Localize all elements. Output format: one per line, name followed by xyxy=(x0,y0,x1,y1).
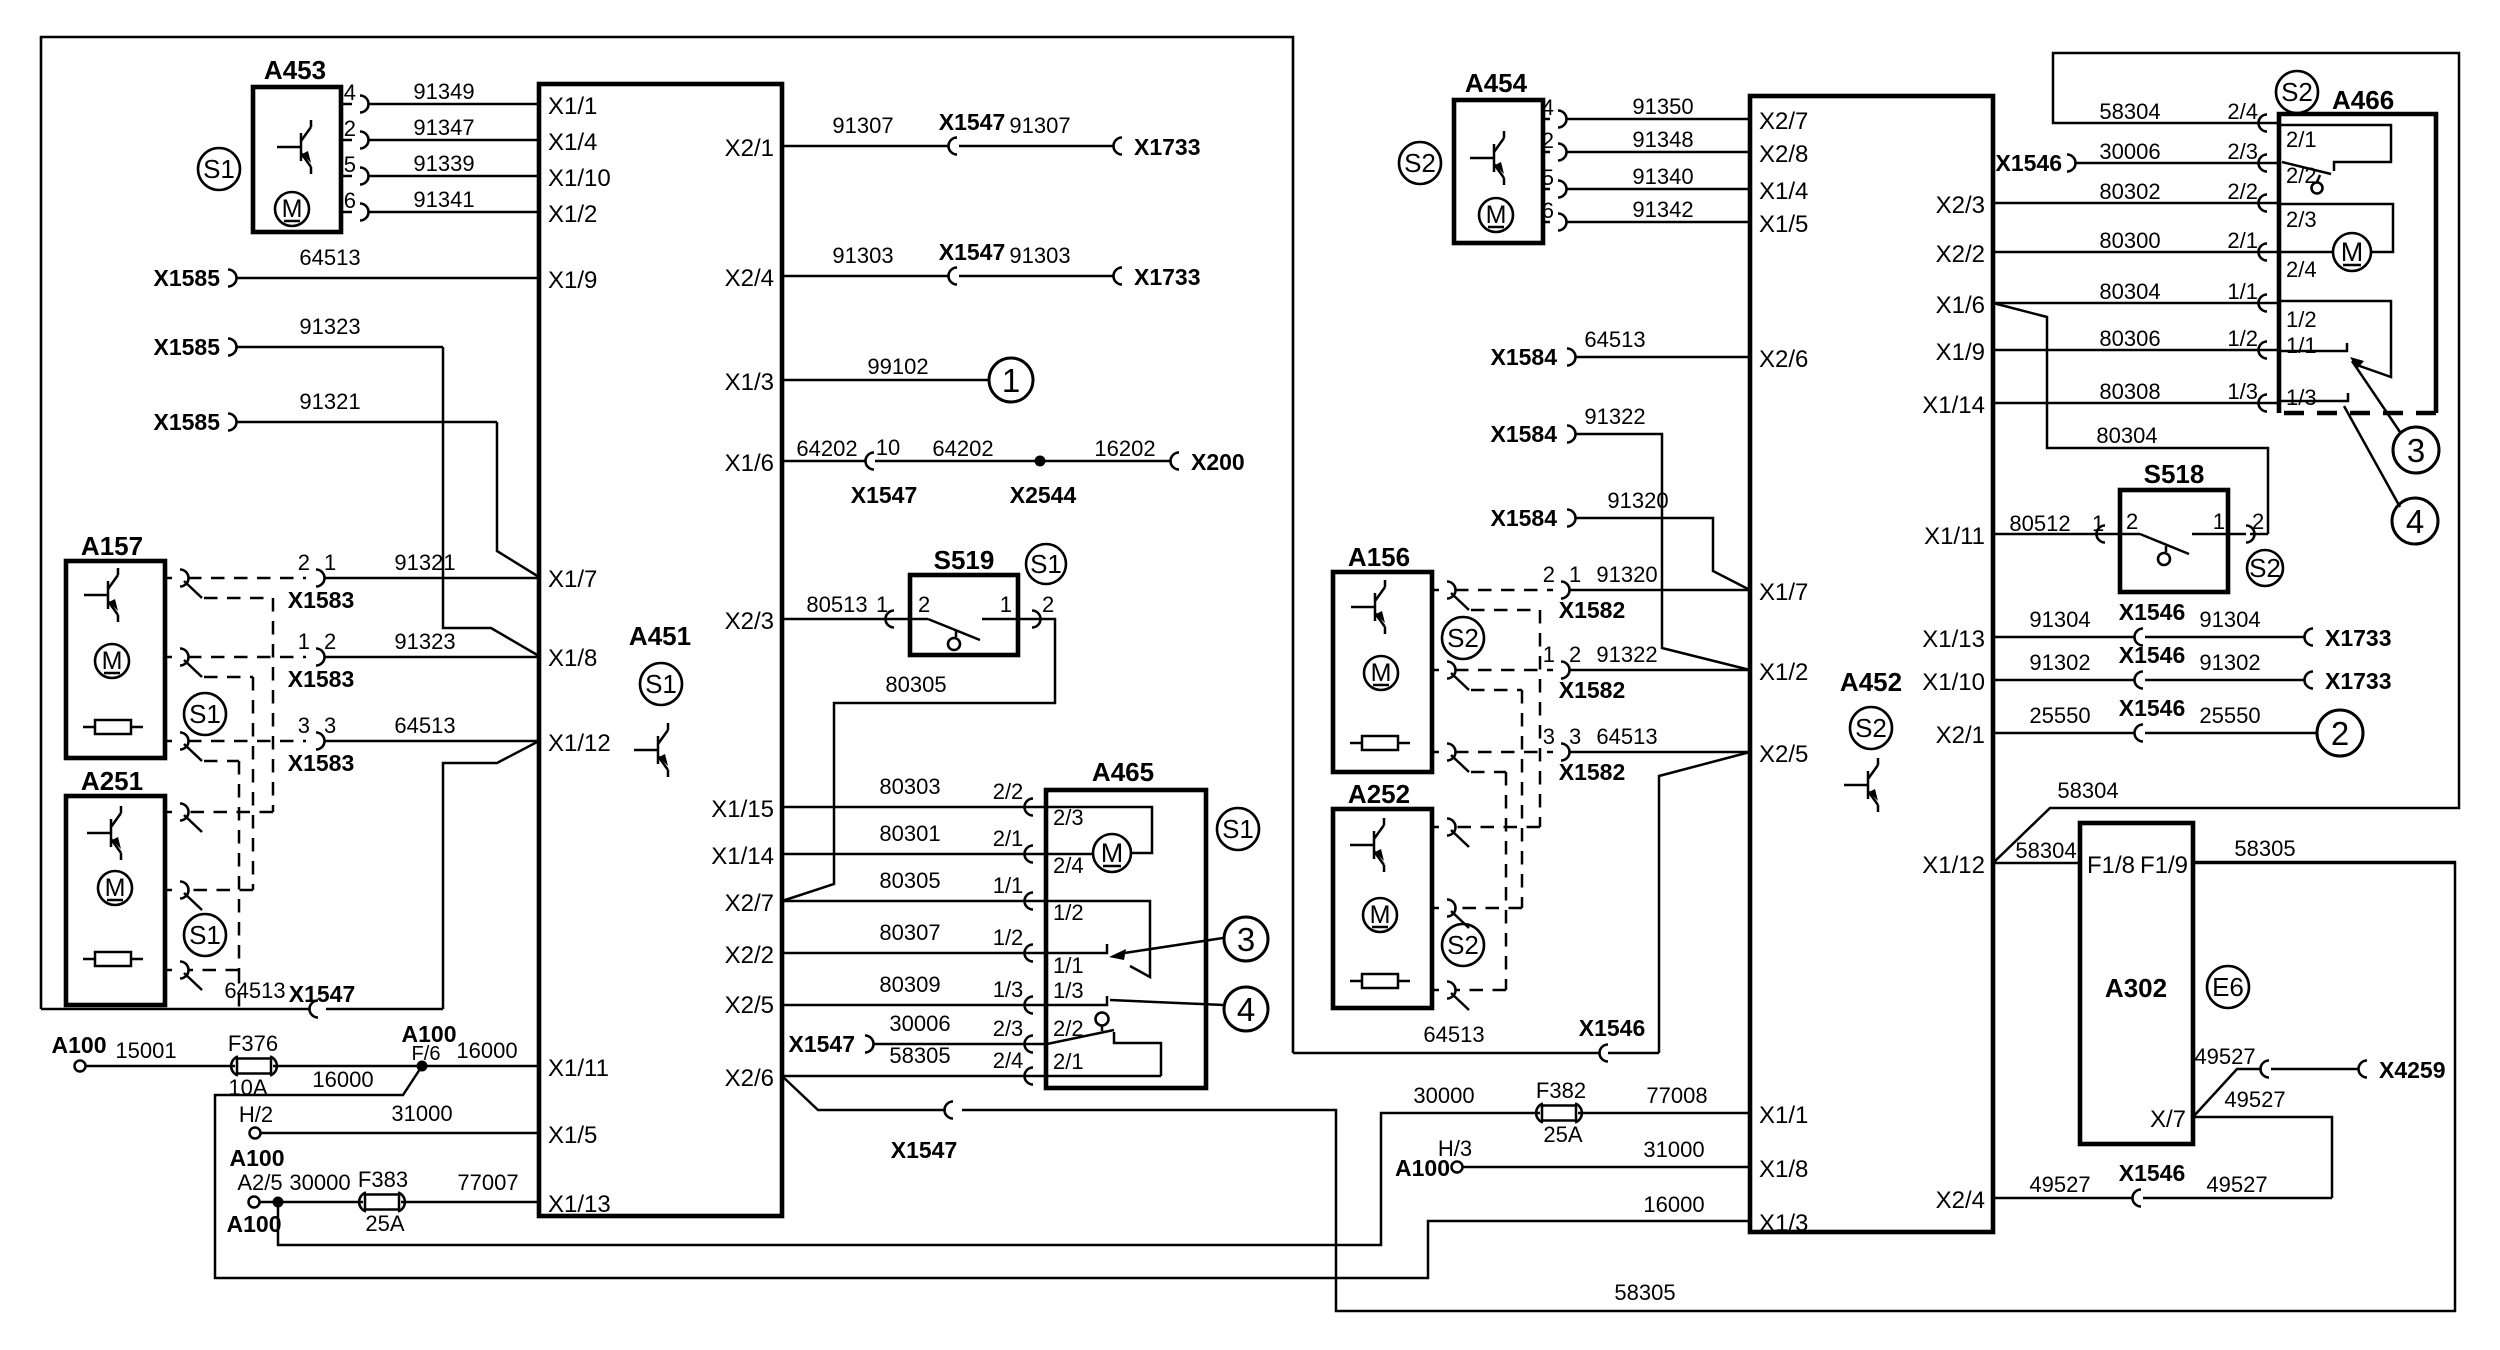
svg-text:X1/13: X1/13 xyxy=(1922,626,1985,653)
svg-text:3: 3 xyxy=(2407,432,2425,469)
svg-text:80309: 80309 xyxy=(879,972,940,997)
svg-text:80307: 80307 xyxy=(879,920,940,945)
svg-text:80304: 80304 xyxy=(2099,279,2160,304)
svg-text:X2/6: X2/6 xyxy=(1759,346,1808,373)
svg-text:X1/12: X1/12 xyxy=(548,730,611,757)
svg-text:91323: 91323 xyxy=(394,629,455,654)
svg-text:A452: A452 xyxy=(1840,667,1902,697)
svg-text:1/3: 1/3 xyxy=(1053,978,1084,1003)
svg-text:91320: 91320 xyxy=(1596,562,1657,587)
svg-text:X1546: X1546 xyxy=(1995,150,2062,176)
svg-text:X1/10: X1/10 xyxy=(548,165,611,192)
svg-text:2: 2 xyxy=(2126,509,2138,534)
svg-text:X1583: X1583 xyxy=(288,666,355,692)
svg-text:X1/13: X1/13 xyxy=(548,1191,611,1218)
svg-text:X2/8: X2/8 xyxy=(1759,141,1808,168)
svg-text:49527: 49527 xyxy=(2194,1044,2255,1069)
svg-text:80303: 80303 xyxy=(879,774,940,799)
svg-text:4: 4 xyxy=(344,80,356,105)
svg-text:2: 2 xyxy=(298,550,310,575)
svg-text:X1582: X1582 xyxy=(1559,597,1626,623)
svg-text:77008: 77008 xyxy=(1646,1083,1707,1108)
svg-text:X2/7: X2/7 xyxy=(1759,108,1808,135)
svg-text:3: 3 xyxy=(1543,724,1555,749)
svg-text:X1/9: X1/9 xyxy=(548,267,597,294)
svg-text:1: 1 xyxy=(298,629,310,654)
svg-text:1/3: 1/3 xyxy=(993,977,1024,1002)
svg-text:91342: 91342 xyxy=(1632,197,1693,222)
svg-text:X4259: X4259 xyxy=(2379,1057,2446,1083)
svg-text:2/3: 2/3 xyxy=(2286,207,2317,232)
svg-text:1/1: 1/1 xyxy=(2227,279,2258,304)
svg-text:X1/8: X1/8 xyxy=(1759,1156,1808,1183)
svg-text:49527: 49527 xyxy=(2029,1172,2090,1197)
svg-text:58304: 58304 xyxy=(2099,99,2160,124)
svg-text:A156: A156 xyxy=(1348,542,1410,572)
svg-text:X1/11: X1/11 xyxy=(1924,523,1985,550)
svg-text:91304: 91304 xyxy=(2029,607,2090,632)
svg-text:91302: 91302 xyxy=(2199,650,2260,675)
svg-text:80512: 80512 xyxy=(2009,511,2070,536)
svg-text:A100: A100 xyxy=(230,1145,285,1171)
svg-text:2/4: 2/4 xyxy=(2286,257,2317,282)
svg-text:X2/3: X2/3 xyxy=(1936,192,1985,219)
svg-text:S1: S1 xyxy=(189,699,221,729)
svg-text:X1/5: X1/5 xyxy=(548,1122,597,1149)
svg-text:80305: 80305 xyxy=(885,672,946,697)
svg-text:X1584: X1584 xyxy=(1490,505,1557,531)
svg-text:2: 2 xyxy=(1543,562,1555,587)
svg-text:1: 1 xyxy=(324,550,336,575)
svg-text:X1/8: X1/8 xyxy=(548,645,597,672)
svg-text:X1/15: X1/15 xyxy=(711,796,774,823)
svg-text:X1/14: X1/14 xyxy=(1922,392,1985,419)
svg-text:F383: F383 xyxy=(358,1167,408,1192)
svg-text:1/1: 1/1 xyxy=(2286,333,2317,358)
svg-text:3: 3 xyxy=(298,713,310,738)
svg-text:80301: 80301 xyxy=(879,821,940,846)
svg-text:1/2: 1/2 xyxy=(1053,900,1084,925)
svg-text:X1/3: X1/3 xyxy=(725,369,774,396)
svg-text:91307: 91307 xyxy=(1009,113,1070,138)
svg-text:X2/3: X2/3 xyxy=(725,608,774,635)
svg-text:25550: 25550 xyxy=(2199,703,2260,728)
svg-text:X1582: X1582 xyxy=(1559,759,1626,785)
svg-text:A100: A100 xyxy=(227,1211,282,1237)
svg-text:S1: S1 xyxy=(189,920,221,950)
svg-text:64513: 64513 xyxy=(1596,724,1657,749)
svg-text:X2/2: X2/2 xyxy=(1936,241,1985,268)
svg-text:91349: 91349 xyxy=(413,79,474,104)
svg-text:X1546: X1546 xyxy=(2119,695,2186,721)
svg-text:25A: 25A xyxy=(365,1211,404,1236)
svg-text:3: 3 xyxy=(324,713,336,738)
svg-text:S2: S2 xyxy=(1447,930,1479,960)
svg-text:49527: 49527 xyxy=(2206,1172,2267,1197)
svg-text:91303: 91303 xyxy=(832,243,893,268)
svg-text:80300: 80300 xyxy=(2099,228,2160,253)
svg-text:2/4: 2/4 xyxy=(1053,853,1084,878)
svg-text:2/2: 2/2 xyxy=(2227,179,2258,204)
svg-text:X1583: X1583 xyxy=(288,750,355,776)
svg-text:1: 1 xyxy=(1000,592,1012,617)
svg-text:91341: 91341 xyxy=(413,187,474,212)
svg-text:A302: A302 xyxy=(2105,973,2167,1003)
svg-text:64513: 64513 xyxy=(1423,1022,1484,1047)
svg-text:X1/1: X1/1 xyxy=(548,93,597,120)
svg-text:X2/5: X2/5 xyxy=(725,992,774,1019)
svg-text:X1584: X1584 xyxy=(1490,344,1557,370)
svg-text:X1582: X1582 xyxy=(1559,677,1626,703)
svg-text:X1/6: X1/6 xyxy=(1936,292,1985,319)
svg-text:58304: 58304 xyxy=(2057,778,2118,803)
svg-text:X1584: X1584 xyxy=(1490,421,1557,447)
svg-text:2/4: 2/4 xyxy=(2227,99,2258,124)
svg-text:A157: A157 xyxy=(81,531,143,561)
svg-text:A100: A100 xyxy=(1395,1155,1450,1181)
svg-text:5: 5 xyxy=(344,152,356,177)
svg-text:S2: S2 xyxy=(1447,623,1479,653)
svg-text:91347: 91347 xyxy=(413,115,474,140)
svg-text:80308: 80308 xyxy=(2099,379,2160,404)
svg-text:2: 2 xyxy=(1569,642,1581,667)
svg-text:X2/1: X2/1 xyxy=(725,135,774,162)
svg-text:X1/6: X1/6 xyxy=(725,450,774,477)
svg-text:X1585: X1585 xyxy=(153,409,220,435)
svg-text:1/3: 1/3 xyxy=(2286,385,2317,410)
svg-text:A454: A454 xyxy=(1465,68,1528,98)
svg-text:91348: 91348 xyxy=(1632,127,1693,152)
svg-text:25550: 25550 xyxy=(2029,703,2090,728)
svg-text:1/2: 1/2 xyxy=(2227,326,2258,351)
svg-text:X2/7: X2/7 xyxy=(725,890,774,917)
svg-text:X1547: X1547 xyxy=(788,1031,855,1057)
svg-text:64513: 64513 xyxy=(224,978,285,1003)
svg-text:6: 6 xyxy=(1542,198,1554,223)
svg-text:S518: S518 xyxy=(2144,459,2205,489)
svg-text:X1/14: X1/14 xyxy=(711,843,774,870)
svg-text:X1546: X1546 xyxy=(2119,642,2186,668)
svg-text:H/2: H/2 xyxy=(239,1102,273,1127)
svg-text:1/2: 1/2 xyxy=(993,925,1024,950)
svg-text:91321: 91321 xyxy=(299,389,360,414)
svg-text:A251: A251 xyxy=(81,766,143,796)
svg-text:80306: 80306 xyxy=(2099,326,2160,351)
svg-text:4: 4 xyxy=(1542,95,1554,120)
svg-text:X1585: X1585 xyxy=(153,334,220,360)
svg-text:99102: 99102 xyxy=(867,354,928,379)
svg-text:X1/11: X1/11 xyxy=(548,1055,609,1082)
svg-text:16000: 16000 xyxy=(456,1038,517,1063)
svg-text:X1546: X1546 xyxy=(2119,599,2186,625)
svg-text:X1/9: X1/9 xyxy=(1936,339,1985,366)
svg-text:1: 1 xyxy=(2213,509,2225,534)
svg-text:15001: 15001 xyxy=(115,1038,176,1063)
svg-text:4: 4 xyxy=(1237,991,1255,1028)
svg-text:X1/4: X1/4 xyxy=(1759,178,1808,205)
svg-text:1/1: 1/1 xyxy=(1053,953,1084,978)
svg-text:1: 1 xyxy=(876,592,888,617)
svg-text:58305: 58305 xyxy=(889,1043,950,1068)
svg-text:2/3: 2/3 xyxy=(2227,139,2258,164)
svg-text:16000: 16000 xyxy=(312,1067,373,1092)
svg-text:31000: 31000 xyxy=(1643,1137,1704,1162)
svg-text:S1: S1 xyxy=(645,669,677,699)
svg-text:X1547: X1547 xyxy=(939,109,1006,135)
svg-text:A2/5: A2/5 xyxy=(237,1170,282,1195)
svg-text:91322: 91322 xyxy=(1584,404,1645,429)
svg-text:1/2: 1/2 xyxy=(2286,307,2317,332)
svg-text:F/6: F/6 xyxy=(412,1043,441,1065)
svg-text:58305: 58305 xyxy=(2234,836,2295,861)
svg-text:80302: 80302 xyxy=(2099,179,2160,204)
svg-text:91321: 91321 xyxy=(394,550,455,575)
svg-text:80304: 80304 xyxy=(2096,423,2157,448)
svg-text:F1/8: F1/8 xyxy=(2087,852,2135,879)
svg-text:X2/1: X2/1 xyxy=(1936,722,1985,749)
svg-text:2/1: 2/1 xyxy=(993,826,1024,851)
svg-text:S1: S1 xyxy=(1030,549,1062,579)
svg-text:2: 2 xyxy=(2331,715,2349,752)
svg-text:X1583: X1583 xyxy=(288,587,355,613)
svg-text:2/2: 2/2 xyxy=(993,779,1024,804)
svg-text:30006: 30006 xyxy=(889,1011,950,1036)
svg-text:64202: 64202 xyxy=(932,436,993,461)
svg-text:5: 5 xyxy=(1542,165,1554,190)
svg-text:1: 1 xyxy=(1002,362,1020,399)
svg-text:X1547: X1547 xyxy=(851,482,918,508)
svg-text:4: 4 xyxy=(2406,503,2424,540)
svg-text:X2/4: X2/4 xyxy=(1936,1187,1985,1214)
svg-text:X1/12: X1/12 xyxy=(1922,852,1985,879)
svg-text:2: 2 xyxy=(918,592,930,617)
svg-text:3: 3 xyxy=(1569,724,1581,749)
svg-text:16202: 16202 xyxy=(1094,436,1155,461)
svg-text:91322: 91322 xyxy=(1596,642,1657,667)
svg-text:X200: X200 xyxy=(1191,449,1245,475)
svg-text:91307: 91307 xyxy=(832,113,893,138)
svg-text:58305: 58305 xyxy=(1614,1280,1675,1305)
svg-text:2/3: 2/3 xyxy=(993,1016,1024,1041)
svg-text:X1/2: X1/2 xyxy=(1759,659,1808,686)
svg-text:80513: 80513 xyxy=(806,592,867,617)
svg-text:2/3: 2/3 xyxy=(1053,805,1084,830)
svg-text:1: 1 xyxy=(1543,642,1555,667)
svg-text:10: 10 xyxy=(876,435,900,460)
svg-text:30000: 30000 xyxy=(289,1170,350,1195)
svg-text:X1547: X1547 xyxy=(891,1137,958,1163)
svg-text:X1733: X1733 xyxy=(2325,625,2392,651)
svg-text:91340: 91340 xyxy=(1632,164,1693,189)
svg-text:A451: A451 xyxy=(629,621,691,651)
svg-text:X2/5: X2/5 xyxy=(1759,741,1808,768)
svg-text:64513: 64513 xyxy=(394,713,455,738)
svg-text:X/7: X/7 xyxy=(2150,1106,2186,1133)
svg-text:64513: 64513 xyxy=(299,245,360,270)
svg-text:2/4: 2/4 xyxy=(993,1048,1024,1073)
svg-text:2: 2 xyxy=(1042,592,1054,617)
svg-text:X2/2: X2/2 xyxy=(725,942,774,969)
svg-text:X1733: X1733 xyxy=(1134,134,1201,160)
svg-text:1/3: 1/3 xyxy=(2227,379,2258,404)
svg-text:91304: 91304 xyxy=(2199,607,2260,632)
svg-text:X1546: X1546 xyxy=(2119,1160,2186,1186)
svg-text:3: 3 xyxy=(1237,921,1255,958)
svg-text:25A: 25A xyxy=(1543,1122,1582,1147)
svg-text:X2544: X2544 xyxy=(1010,482,1077,508)
svg-text:X1733: X1733 xyxy=(2325,668,2392,694)
svg-text:X1733: X1733 xyxy=(1134,264,1201,290)
svg-text:2/1: 2/1 xyxy=(2227,228,2258,253)
svg-text:X2/4: X2/4 xyxy=(725,265,774,292)
svg-text:2/1: 2/1 xyxy=(2286,127,2317,152)
svg-text:F382: F382 xyxy=(1536,1078,1586,1103)
svg-text:X1/7: X1/7 xyxy=(548,566,597,593)
svg-text:30000: 30000 xyxy=(1413,1083,1474,1108)
svg-text:X2/6: X2/6 xyxy=(725,1065,774,1092)
svg-text:58304: 58304 xyxy=(2015,838,2076,863)
svg-text:S2: S2 xyxy=(1404,148,1436,178)
svg-text:X1/3: X1/3 xyxy=(1759,1210,1808,1237)
svg-text:F1/9: F1/9 xyxy=(2140,852,2188,879)
svg-text:S1: S1 xyxy=(203,154,235,184)
svg-text:49527: 49527 xyxy=(2224,1087,2285,1112)
svg-text:2: 2 xyxy=(324,629,336,654)
svg-text:2/1: 2/1 xyxy=(1053,1049,1084,1074)
svg-text:S519: S519 xyxy=(934,545,995,575)
svg-text:A465: A465 xyxy=(1092,757,1154,787)
svg-text:2: 2 xyxy=(1542,128,1554,153)
svg-text:A252: A252 xyxy=(1348,779,1410,809)
svg-text:X1/5: X1/5 xyxy=(1759,211,1808,238)
svg-text:X1/7: X1/7 xyxy=(1759,579,1808,606)
svg-text:1: 1 xyxy=(2092,511,2104,536)
svg-text:1/1: 1/1 xyxy=(993,873,1024,898)
svg-text:X1/2: X1/2 xyxy=(548,201,597,228)
svg-text:2: 2 xyxy=(344,116,356,141)
svg-text:91339: 91339 xyxy=(413,151,474,176)
svg-text:X1/1: X1/1 xyxy=(1759,1102,1808,1129)
svg-text:16000: 16000 xyxy=(1643,1192,1704,1217)
svg-text:X1547: X1547 xyxy=(289,981,356,1007)
svg-text:X1585: X1585 xyxy=(153,265,220,291)
svg-text:2: 2 xyxy=(2252,509,2264,534)
svg-text:91350: 91350 xyxy=(1632,94,1693,119)
svg-text:E6: E6 xyxy=(2212,972,2244,1002)
svg-text:A100: A100 xyxy=(52,1032,107,1058)
svg-text:S1: S1 xyxy=(1222,814,1254,844)
svg-text:A453: A453 xyxy=(264,55,326,85)
svg-text:6: 6 xyxy=(344,188,356,213)
svg-text:S2: S2 xyxy=(1855,713,1887,743)
svg-text:S2: S2 xyxy=(2249,553,2281,583)
svg-text:X1/10: X1/10 xyxy=(1922,669,1985,696)
svg-text:91303: 91303 xyxy=(1009,243,1070,268)
svg-text:91320: 91320 xyxy=(1607,488,1668,513)
svg-text:X1547: X1547 xyxy=(939,239,1006,265)
svg-text:A466: A466 xyxy=(2332,85,2394,115)
svg-text:1: 1 xyxy=(1569,562,1581,587)
svg-text:S2: S2 xyxy=(2281,77,2313,107)
svg-text:64202: 64202 xyxy=(796,436,857,461)
svg-text:X1/4: X1/4 xyxy=(548,129,597,156)
svg-text:91323: 91323 xyxy=(299,314,360,339)
svg-text:80305: 80305 xyxy=(879,868,940,893)
svg-text:91302: 91302 xyxy=(2029,650,2090,675)
svg-text:F376: F376 xyxy=(228,1031,278,1056)
svg-text:30006: 30006 xyxy=(2099,139,2160,164)
svg-text:X1546: X1546 xyxy=(1579,1015,1646,1041)
svg-text:64513: 64513 xyxy=(1584,327,1645,352)
svg-text:31000: 31000 xyxy=(391,1101,452,1126)
svg-text:77007: 77007 xyxy=(457,1170,518,1195)
